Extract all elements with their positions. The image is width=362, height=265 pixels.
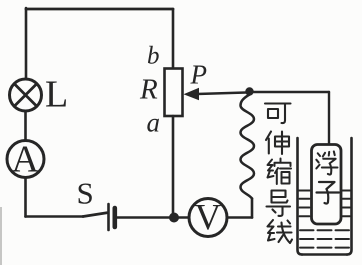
svg-text:P: P xyxy=(190,60,208,90)
battery short plate xyxy=(113,208,118,227)
wire down to float xyxy=(328,92,330,145)
wire rheostat bottom vertical xyxy=(172,116,175,218)
stretchable wire coil xyxy=(241,95,255,199)
wire lamp to ammeter xyxy=(24,111,27,141)
label 浮 (float text) xyxy=(316,151,337,174)
container bottom xyxy=(302,253,347,256)
wire battery to junction xyxy=(116,216,173,219)
svg-text:R: R xyxy=(139,74,158,106)
label 子 (float text) xyxy=(317,182,340,204)
wire rheostat top vertical xyxy=(172,9,175,69)
label 线 xyxy=(268,220,293,243)
wire slider to float (horizontal) xyxy=(250,91,330,93)
float body xyxy=(312,145,342,225)
voltmeter V xyxy=(189,198,227,239)
wire top horizontal xyxy=(26,8,173,11)
liquid surface line xyxy=(299,190,350,192)
label 导 xyxy=(267,191,291,216)
svg-text:a: a xyxy=(147,108,161,138)
wire voltmeter to coil xyxy=(227,216,252,219)
liquid hatch dashes below float xyxy=(300,230,349,247)
svg-text:S: S xyxy=(77,176,94,211)
slider P arrow xyxy=(184,88,247,100)
svg-text:V: V xyxy=(195,198,222,239)
svg-text:b: b xyxy=(147,43,160,70)
liquid hatch dashes right of float xyxy=(343,199,351,217)
svg-text:L: L xyxy=(45,74,68,116)
label 伸 xyxy=(266,132,289,155)
wire ammeter to bottom xyxy=(24,178,27,217)
rheostat R body xyxy=(165,69,183,117)
battery long plate xyxy=(107,204,110,230)
scan edge artifact xyxy=(0,207,2,265)
container left wall xyxy=(298,138,303,255)
slider node dot xyxy=(245,87,253,95)
label 可 (stretchable-wire text) xyxy=(265,104,291,124)
liquid hatch dashes left of float xyxy=(300,199,310,217)
wire junction to voltmeter xyxy=(174,216,189,219)
label 缩 xyxy=(268,159,292,185)
wire bottom left xyxy=(26,215,84,218)
svg-text:A: A xyxy=(12,139,40,181)
wire left vertical (top corner to lamp) xyxy=(25,8,28,79)
switch S lever xyxy=(83,213,107,217)
junction node dot xyxy=(169,213,179,223)
container right wall xyxy=(347,138,352,255)
ammeter A xyxy=(7,139,44,181)
lamp L xyxy=(10,79,42,111)
wire coil bottom riser xyxy=(251,199,254,218)
